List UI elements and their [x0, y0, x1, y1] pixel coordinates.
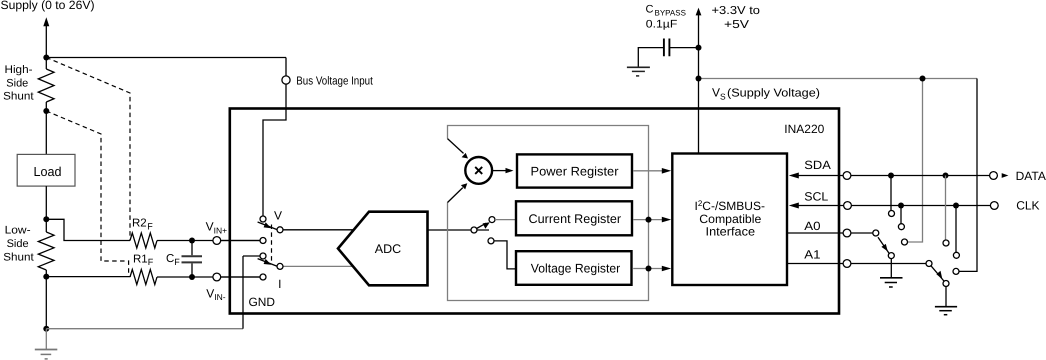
svg-text:Interface: Interface [706, 225, 756, 239]
wire VIN- inside to mux [221, 276, 260, 278]
node SDA dot 2 [943, 173, 949, 179]
wire A1 pin [787, 263, 929, 265]
svg-text:F: F [147, 221, 153, 231]
ground (A0) [880, 277, 903, 279]
svg-text:Side: Side [7, 238, 29, 250]
wire R1F to VIN- [157, 276, 260, 278]
wire shunt bottom to R1F [46, 276, 130, 278]
terminal A0 [843, 229, 851, 237]
svg-text:GND: GND [249, 295, 276, 309]
switch contact A0 GND [888, 253, 894, 259]
wire switch to voltage register [494, 241, 515, 269]
wire +3.3V supply vertical [698, 15, 700, 79]
switch contact A0 SDA [889, 211, 895, 217]
terminal CLK [990, 202, 998, 210]
wire loop diagonal into multiplier upper [448, 139, 464, 154]
svg-text:Voltage Register: Voltage Register [531, 261, 621, 275]
svg-text:Bus Voltage Input: Bus Voltage Input [296, 74, 373, 87]
wire power register output [633, 170, 664, 172]
wire z-bend shunt-top to R2F [46, 219, 130, 240]
node SDA dot 1 [888, 173, 894, 179]
svg-text:C: C [646, 3, 654, 15]
svg-text:ADC: ADC [375, 242, 401, 256]
resistor Low-Side Shunt [38, 232, 54, 270]
wire current register output [633, 219, 664, 221]
wire VS rail [699, 78, 978, 80]
IC box INA220 [230, 109, 839, 314]
svg-text:A0: A0 [804, 219, 821, 233]
capacitor CBYPASS left lead and ground lead [638, 48, 664, 67]
capacitor CBYPASS plates [664, 39, 670, 57]
ground (A1) [935, 306, 957, 308]
switch mux arm V [258, 222, 277, 230]
switch A0 arm [878, 237, 889, 253]
wire VS into interface box [698, 79, 700, 154]
node SCL dot 2 [953, 203, 959, 209]
wire ground rail to IC GND pin [46, 328, 243, 330]
node bypass cap junction [696, 45, 702, 51]
switch contact VIN+ [260, 238, 266, 244]
node current output to loop [646, 217, 652, 223]
switch contact A1 VS [953, 268, 959, 274]
load box [17, 154, 75, 186]
switch contact ADC out pole [471, 227, 477, 233]
node R2F-CF junction [189, 238, 195, 244]
svg-text:Current Register: Current Register [529, 212, 622, 226]
svg-text:CLK: CLK [1016, 199, 1039, 213]
switch A1 arm [931, 266, 944, 281]
switch contact to voltage register [488, 238, 494, 244]
capacitor CF leads [191, 241, 193, 278]
switch contact A0 SCL [898, 224, 904, 230]
wire multiplier to power register [492, 170, 506, 172]
svg-text:SDA: SDA [804, 158, 831, 172]
wire A0 ground stub [890, 259, 892, 278]
switch contact throw V [277, 227, 283, 233]
feedback loop wire [448, 126, 649, 301]
wire VS drop to A0 switch contact [905, 79, 923, 243]
svg-text:V: V [206, 286, 214, 300]
switch contact throw I [277, 263, 283, 269]
terminal DATA [990, 172, 998, 180]
switch contact A1 pole [926, 261, 932, 267]
svg-text:R2: R2 [132, 218, 147, 230]
wire I to ADC [280, 265, 353, 267]
switch ADC output arm [474, 223, 486, 230]
register box Power [517, 154, 632, 187]
switch contact A1 GND [943, 281, 949, 287]
supply arrow up [43, 17, 49, 26]
interface box I2C/SMBUS [672, 154, 787, 286]
ground (bypass capacitor) [627, 66, 650, 68]
svg-text:Low-: Low- [5, 225, 31, 237]
svg-text:(Supply Voltage): (Supply Voltage) [727, 88, 820, 100]
register box Voltage [516, 251, 632, 285]
node VS junction at supply [696, 76, 702, 82]
wire ADC output [428, 229, 490, 231]
svg-text:IN+: IN+ [214, 225, 228, 235]
terminal SCL [844, 202, 852, 210]
svg-text:V: V [712, 86, 720, 100]
node voltage output to loop [646, 266, 652, 272]
capacitor CF plates [182, 255, 203, 257]
node ground rail junction [43, 326, 49, 332]
wire SCL pin [796, 205, 994, 207]
wire SCL drop to A1 contact [955, 206, 957, 256]
resistor R2F [130, 233, 157, 248]
arrow DATA [1002, 173, 1009, 178]
resistor R1F [130, 270, 157, 285]
node above low-side shunt [43, 216, 49, 222]
switch contact A1 SDA [943, 240, 949, 246]
wire supply vertical to high-side shunt [45, 25, 47, 69]
wire top rail to bus voltage input [46, 57, 286, 59]
multiplier cross [475, 167, 482, 174]
svg-text:Power Register: Power Register [531, 165, 619, 179]
svg-text:C: C [166, 253, 174, 265]
svg-text:DATA: DATA [1016, 169, 1046, 183]
wire SDA drop to A0 contact [890, 176, 892, 214]
wire GND pin path down and out [242, 256, 244, 329]
wire SDA pin [796, 175, 994, 177]
node below low-side shunt [43, 274, 49, 280]
switch contact A1 SCL [953, 252, 959, 258]
node R1F-CF junction [189, 274, 195, 280]
svg-text:V: V [206, 220, 214, 234]
switch contact A0 VS [902, 239, 908, 245]
terminal A1 [843, 260, 851, 268]
svg-text:Side: Side [6, 77, 28, 89]
node below high-side shunt [43, 108, 49, 114]
wire load to low-side shunt [45, 186, 47, 232]
wire shunt to load [45, 102, 47, 154]
node SCL dot 1 [898, 203, 904, 209]
svg-text:F: F [148, 257, 154, 267]
wire A1 ground stub [945, 287, 947, 307]
svg-text:High-: High- [5, 64, 33, 76]
dashed wire from shunt bottom to R1F (high-side option) [46, 111, 128, 277]
wire SCL drop to A0 contact [900, 206, 902, 227]
terminal SDA [843, 172, 851, 180]
svg-text:INA220: INA220 [784, 122, 824, 136]
wire switch to current register [495, 219, 515, 221]
wire stub to ground symbol [45, 329, 47, 350]
svg-text:S: S [720, 91, 726, 101]
svg-text:BYPASS: BYPASS [655, 8, 686, 17]
wire V to ADC [280, 229, 354, 231]
terminal VIN- [213, 273, 221, 281]
wire bus voltage input drop into mux [263, 58, 286, 220]
wire A0 pin [787, 232, 876, 234]
wire VS drop right corner to A1 switch contact [956, 79, 977, 272]
wire SDA drop to A1 contact [945, 176, 947, 244]
node supply junction [43, 55, 49, 61]
svg-text:Shunt: Shunt [3, 91, 34, 103]
svg-text:Load: Load [34, 164, 62, 179]
multiplier circle [465, 157, 492, 184]
switch contact to current register [489, 217, 495, 223]
svg-text:0.1µF: 0.1µF [646, 19, 678, 31]
wire VIN+ inside to mux [221, 240, 260, 242]
switch contact A0 pole [873, 230, 879, 236]
svg-text:A1: A1 [804, 247, 821, 261]
ground (supply return) [35, 349, 58, 351]
capacitor CBYPASS right lead [669, 47, 698, 49]
resistor High-Side Shunt [38, 69, 54, 102]
terminal VIN+ [213, 237, 221, 245]
svg-text:SCL: SCL [804, 189, 828, 203]
wire voltage register output [633, 268, 664, 270]
svg-text:V: V [274, 208, 282, 222]
switch mux gang dashed link [271, 225, 273, 262]
op-amp ADC pentagon [338, 212, 428, 286]
svg-text:F: F [174, 257, 180, 267]
switch contact pole from bus [260, 216, 266, 222]
supply arrow +3.3V [696, 8, 702, 16]
switch contact pole GND [260, 253, 266, 259]
svg-text:+3.3V to: +3.3V to [712, 5, 761, 17]
svg-text:R1: R1 [133, 253, 148, 265]
switch mux arm I [258, 259, 277, 267]
svg-text:I: I [278, 277, 281, 291]
node VS junction at A0 drop [920, 76, 926, 82]
dashed wire from supply node to R2F (high-side option) [46, 58, 130, 241]
svg-text:IN-: IN- [214, 292, 226, 302]
svg-text:Shunt: Shunt [3, 252, 34, 264]
wire R2F to VIN+ [157, 240, 260, 242]
wire loop diagonal into multiplier lower [448, 188, 463, 203]
wire low-side shunt down to ground rail [45, 270, 47, 329]
wire GND pin to switch pole I [243, 255, 260, 257]
switch contact VIN- [260, 274, 266, 280]
svg-text:+5V: +5V [724, 19, 749, 31]
svg-text:Supply (0 to 26V): Supply (0 to 26V) [1, 0, 95, 12]
register box Current [516, 201, 632, 235]
terminal Bus Voltage Input [282, 76, 290, 84]
